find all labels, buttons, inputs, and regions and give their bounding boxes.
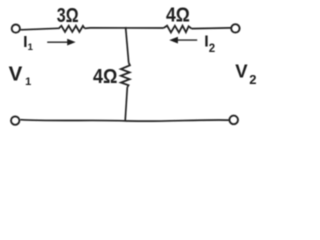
terminal: port 2 bottom-right [229,116,238,125]
wire: vertical from top T-junction [126,27,129,63]
svg-text:1: 1 [28,42,34,53]
wire: vertical to bottom junction [125,87,127,121]
terminal: port 2 top-right [231,24,239,32]
svg-text:2: 2 [209,43,215,55]
svg-text:1: 1 [25,76,31,88]
resistor R2 4-ohm series right zigzag [164,26,192,33]
svg-text:2: 2 [249,72,256,87]
current arrow I1 (points right) [47,41,69,43]
svg-text:4Ω: 4Ω [93,66,117,88]
terminal: port 1 bottom-left [11,116,19,124]
wire: bottom segment [20,120,229,122]
svg-text:V: V [235,61,248,82]
wire: top-right segment [191,27,230,30]
resistor R3 4-ohm shunt vertical zigzag [121,63,130,87]
resistor R1 3-ohm series left zigzag [59,26,85,32]
wire: top-left segment [21,28,59,30]
current arrow I2 (points left) [177,39,197,41]
terminal: port 1 top-left [12,25,20,33]
svg-text:3Ω: 3Ω [57,5,79,27]
svg-text:4Ω: 4Ω [166,5,190,27]
svg-text:V: V [9,62,23,85]
wire: top-middle segment [85,27,164,30]
